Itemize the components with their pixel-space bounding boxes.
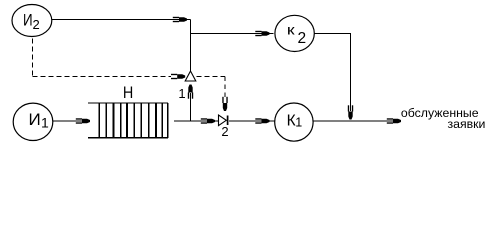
wire И2 to top junction: [52, 19, 191, 21]
source И1 (ellipse): [13, 103, 53, 140]
svg-text:2: 2: [221, 124, 228, 139]
label 2: [221, 124, 228, 139]
arrowhead into К1: [255, 118, 269, 123]
buffer Н (queue symbol): [88, 103, 168, 138]
arrowhead into buffer: [76, 118, 90, 123]
server К2 (ellipse): [275, 15, 314, 51]
label обслуженные заявки: [401, 106, 486, 131]
arrowhead output: [387, 118, 401, 123]
label И1: [29, 110, 50, 131]
label 1: [178, 86, 185, 101]
arrowhead into top junction: [173, 17, 187, 22]
dashed wire to valve 1: [33, 76, 172, 78]
valve 1 (triangle): [185, 71, 196, 81]
label К2: [287, 23, 306, 47]
wire К2 right then down to output line: [314, 34, 350, 112]
svg-text:И: И: [23, 11, 33, 30]
wire И1 to buffer: [53, 120, 90, 122]
wire output line: [313, 120, 401, 122]
label И2: [23, 11, 40, 32]
label Н: [123, 83, 133, 102]
arrowhead up into valve 1: [188, 85, 193, 99]
server К1 (ellipse): [275, 103, 313, 141]
dashed wire from И2 down: [32, 39, 34, 77]
svg-text:1: 1: [41, 115, 49, 131]
valve 2 (triangle with bar): [219, 115, 227, 126]
svg-text:Н: Н: [123, 83, 133, 102]
svg-text:заявки: заявки: [447, 117, 485, 131]
svg-text:2: 2: [298, 30, 307, 47]
wire branch to К2: [191, 33, 274, 35]
wire valve 2 to К1: [229, 120, 275, 122]
wire up-arrow from bottom rail into valve 1: [190, 93, 192, 121]
dashed wire valve 1 to valve 2: [197, 75, 226, 77]
wire vertical junction down to valve 1 apex: [190, 20, 192, 72]
arrowhead into К2: [255, 31, 269, 36]
svg-text:к: к: [287, 23, 295, 38]
arrowhead down onto output line: [348, 105, 353, 119]
arrowhead into valve 1: [171, 74, 185, 79]
label К1: [287, 112, 303, 129]
wire buffer to valve 2: [174, 120, 219, 122]
svg-text:1: 1: [295, 115, 302, 129]
arrowhead down into valve 2: [222, 97, 227, 111]
source И2 (ellipse): [12, 5, 52, 37]
arrowhead into valve 2: [201, 118, 215, 123]
svg-text:И: И: [29, 110, 41, 129]
dashed wire down to valve 2: [224, 76, 226, 98]
svg-text:1: 1: [178, 86, 185, 101]
svg-text:2: 2: [33, 17, 40, 32]
